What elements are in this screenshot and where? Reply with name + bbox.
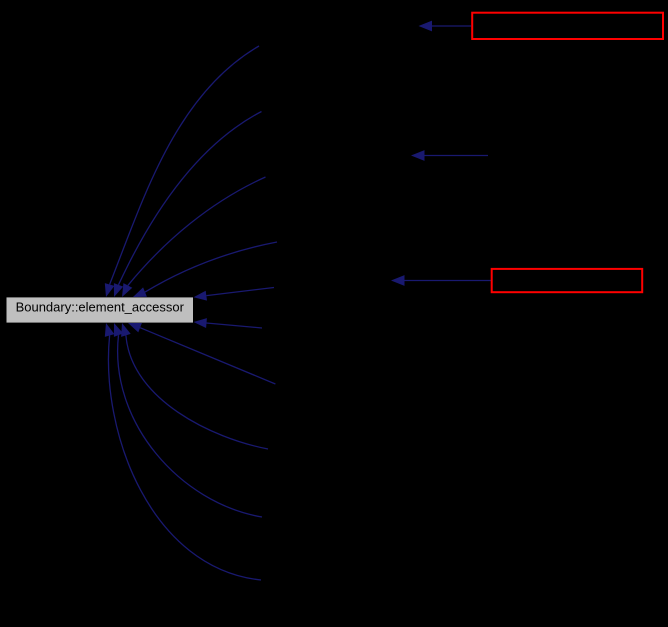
edge C4 bbox=[133, 242, 277, 297]
edge C5 bbox=[194, 288, 275, 301]
edge C2 bbox=[114, 112, 262, 298]
edge C7 bbox=[128, 323, 275, 384]
red box 2 (truncated node, middle right) bbox=[492, 269, 643, 292]
node Boundary::element_accessor bbox=[7, 297, 194, 322]
arrow A2 bbox=[411, 150, 488, 161]
edge C10 bbox=[105, 323, 261, 580]
edge C3 bbox=[122, 177, 266, 297]
edge C6 bbox=[194, 318, 263, 328]
edge C1 bbox=[105, 46, 259, 297]
edge C8 bbox=[121, 323, 268, 449]
red box 1 (truncated node, top right) bbox=[472, 13, 663, 39]
arrow A1 (from red box 1) bbox=[419, 21, 472, 32]
svg-text:Boundary::element_accessor: Boundary::element_accessor bbox=[16, 300, 185, 315]
edge C9 bbox=[114, 323, 262, 517]
arrow A3 (from red box 2) bbox=[391, 275, 491, 286]
